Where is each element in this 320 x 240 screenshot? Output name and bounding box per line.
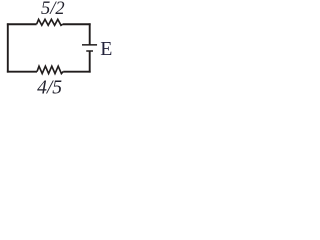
svg-text:4/5: 4/5 [37,78,62,96]
wire: bottom-right segment [63,71,90,73]
wire: top-left segment [7,23,37,25]
svg-text:E: E [100,38,112,60]
wire: top-right segment [63,23,91,25]
svg-text:5/2: 5/2 [41,0,65,19]
wire: left vertical [7,23,9,72]
battery E: short plate (-) [86,50,93,52]
wire: right lower vertical [89,51,91,73]
resistor R2 zigzag (bottom) [37,66,63,73]
wire: bottom-left segment [7,71,37,73]
battery E: long plate (+) [82,44,97,46]
wire: right upper vertical [89,23,91,45]
background [0,0,122,96]
resistor R1 zigzag (top) [37,19,63,25]
